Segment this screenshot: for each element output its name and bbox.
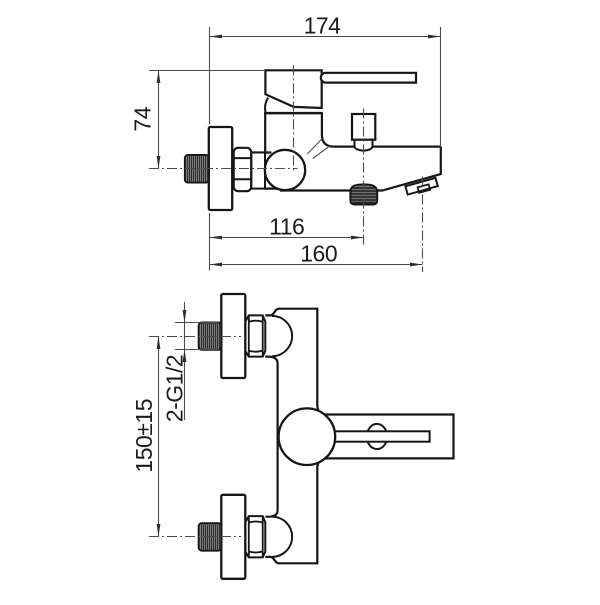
lever bar: [321, 73, 416, 83]
fillet leader lines: [307, 138, 322, 154]
svg-text:174: 174: [304, 13, 342, 39]
collar line: [264, 112, 323, 115]
shower hose connector neck: [355, 140, 373, 151]
svg-text:2-G1/2: 2-G1/2: [162, 355, 188, 422]
outlet nozzle (tilted, at spout end): [405, 178, 438, 196]
svg-text:74: 74: [130, 106, 156, 131]
hex nut (side view): [234, 148, 252, 191]
bottom threaded nipple (front): [199, 523, 222, 550]
body outline: [251, 113, 441, 190]
arrowheads (top view): [157, 35, 441, 267]
bottom wall flange (front): [221, 495, 245, 579]
body white fill: [265, 113, 441, 190]
top hex nut (front): [245, 315, 265, 356]
escutcheon left bulge: [265, 98, 268, 113]
dimension lines (bottom view): [159, 302, 219, 537]
handle cap: [265, 70, 321, 108]
svg-text:116: 116: [269, 214, 304, 240]
svg-text:160: 160: [300, 241, 337, 267]
diverter knurled knob (below spout): [350, 184, 377, 204]
wall flange: [209, 127, 232, 210]
lever shaft bar: [330, 431, 430, 441]
top wall flange (front): [221, 294, 245, 378]
top threaded nipple (front): [199, 323, 222, 350]
ring between nut and body: [251, 153, 265, 189]
dimension lines (top view): [149, 27, 441, 271]
valve ball circle: [265, 150, 305, 190]
shower hose connector knob: [352, 114, 375, 140]
arrowheads (bottom view): [157, 310, 187, 537]
column waist left edge: [265, 357, 277, 517]
centerlines (bottom view): [149, 337, 241, 537]
bottom hex nut (front): [245, 516, 265, 557]
small circle on lever: [367, 424, 387, 449]
cartridge housing circle: [279, 408, 336, 465]
body outline: [265, 309, 453, 564]
svg-text:150±15: 150±15: [131, 399, 157, 473]
threaded nipple: [185, 155, 209, 183]
inlet boss arcs: [272, 316, 292, 557]
centerlines (top view): [149, 65, 423, 272]
